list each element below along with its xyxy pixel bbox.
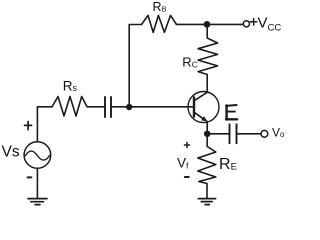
svg-text:Vs: Vs bbox=[2, 143, 20, 160]
